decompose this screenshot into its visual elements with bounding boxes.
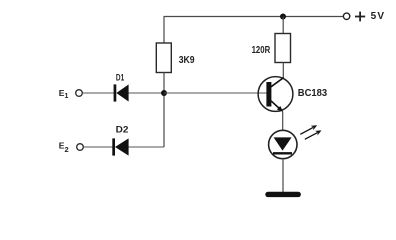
svg-text:D2: D2 [116, 124, 129, 134]
wire D2 anode to riser corner [129, 146, 165, 148]
wire top +5V supply rail [164, 16, 344, 18]
resistor R2 120R body [275, 34, 291, 63]
terminal +5V [343, 13, 349, 19]
transistor Q1 BC183 [258, 77, 293, 112]
wire D1 anode to node A [129, 92, 165, 94]
wire rail corner down to 3K9 top [163, 17, 165, 44]
label +5V [355, 11, 385, 22]
svg-text:5V: 5V [371, 11, 386, 22]
wire 3K9 bottom to node A [163, 73, 165, 94]
wire emitter to LED anode [282, 112, 284, 131]
svg-text:E2: E2 [59, 141, 69, 154]
wire riser from D2 line up to node A [163, 93, 165, 147]
wire node A to transistor base [164, 92, 267, 94]
wire E1 to D1 cathode [83, 92, 115, 94]
terminal E1 [76, 90, 83, 97]
junction node A [161, 90, 167, 96]
svg-text:120R: 120R [252, 45, 271, 56]
resistor R1 3K9 body [156, 43, 171, 73]
ground [265, 192, 301, 197]
wire E2 to D2 cathode [84, 146, 113, 148]
svg-text:D1: D1 [116, 73, 124, 83]
junction top rail to 120R [280, 14, 286, 20]
light emission arrow lower [305, 130, 322, 139]
LED D3 [269, 130, 297, 158]
svg-text:BC183: BC183 [298, 88, 328, 99]
wire rail to 120R top [282, 17, 284, 35]
diode D1 [114, 84, 129, 101]
svg-text:E1: E1 [59, 88, 69, 100]
wire LED cathode to ground [282, 159, 284, 193]
diode D2 [112, 138, 128, 155]
svg-text:3K9: 3K9 [179, 55, 195, 66]
terminal E2 [77, 144, 84, 151]
light emission arrow upper [300, 125, 317, 134]
wire 120R bottom to collector [282, 63, 284, 79]
